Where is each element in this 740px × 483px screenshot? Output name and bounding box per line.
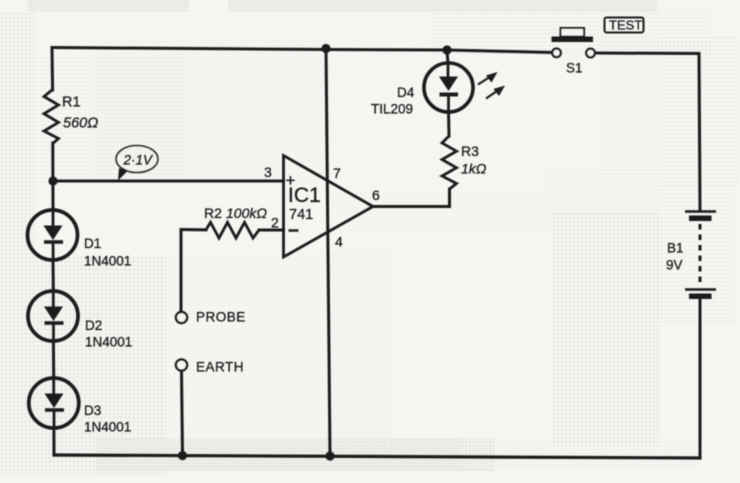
svg-text:560Ω: 560Ω bbox=[63, 116, 98, 132]
svg-text:IC1: IC1 bbox=[288, 184, 321, 207]
svg-text:B1: B1 bbox=[667, 241, 684, 256]
terminal PROBE bbox=[176, 312, 187, 323]
wire R2 left segment bbox=[181, 228, 206, 231]
LED D4 bbox=[424, 63, 505, 112]
diode D1 bbox=[28, 210, 78, 260]
wire left D1-D2 bbox=[52, 260, 55, 291]
svg-text:1N4001: 1N4001 bbox=[84, 254, 131, 269]
node junction bottom earth bbox=[178, 451, 187, 460]
wire LED top bbox=[447, 50, 448, 63]
svg-text:1N4001: 1N4001 bbox=[85, 335, 132, 350]
resistor R3 bbox=[442, 136, 457, 189]
diode D2 bbox=[28, 291, 78, 341]
svg-text:1N4001: 1N4001 bbox=[84, 420, 131, 435]
resistor R1 bbox=[44, 90, 59, 144]
svg-text:4: 4 bbox=[335, 234, 343, 250]
wire right vertical top bbox=[699, 54, 700, 211]
node junction bottom pin4 bbox=[325, 451, 334, 460]
wire probe vertical bbox=[180, 230, 183, 312]
wire middle vertical pins 7/4 bbox=[326, 48, 330, 456]
svg-text:R3: R3 bbox=[461, 143, 479, 159]
svg-text:EARTH: EARTH bbox=[196, 360, 244, 375]
svg-text:9V: 9V bbox=[666, 258, 683, 273]
wire earth vertical bbox=[182, 371, 183, 456]
svg-text:741: 741 bbox=[289, 207, 313, 223]
wire left vertical top bbox=[51, 48, 55, 91]
wire LED to R3 bbox=[447, 112, 451, 136]
wire left D3 to bottom rail bbox=[52, 428, 55, 455]
TEST label box bbox=[605, 18, 644, 33]
terminal EARTH bbox=[176, 359, 187, 370]
svg-text:D4: D4 bbox=[397, 85, 415, 100]
node junction top middle bbox=[321, 44, 330, 53]
svg-text:3: 3 bbox=[264, 164, 272, 180]
wire R2 right to pin 2 bbox=[259, 229, 284, 232]
node junction left 2.1V bbox=[48, 176, 57, 185]
svg-text:R2: R2 bbox=[204, 205, 222, 221]
resistor R2 bbox=[206, 222, 259, 238]
diode D3 bbox=[29, 378, 79, 428]
svg-text:2·1V: 2·1V bbox=[123, 153, 155, 168]
svg-text:S1: S1 bbox=[566, 61, 583, 76]
wire pin 3 input bbox=[53, 180, 284, 183]
svg-text:TIL209: TIL209 bbox=[371, 102, 413, 117]
op-amp U1 (IC1 741) bbox=[284, 156, 374, 258]
wire R3 to output corner bbox=[373, 189, 450, 207]
node voltage callout 2.1V bbox=[116, 146, 158, 181]
node junction top LED bbox=[442, 45, 451, 54]
svg-text:D2: D2 bbox=[85, 318, 102, 333]
svg-text:D1: D1 bbox=[84, 236, 101, 251]
svg-text:2: 2 bbox=[271, 215, 279, 231]
wire left vertical R1 to D1 bbox=[51, 143, 54, 210]
svg-text:100kΩ: 100kΩ bbox=[226, 205, 267, 221]
switch S1 bbox=[552, 28, 595, 57]
wire right vertical bottom bbox=[699, 299, 702, 458]
wire top rail right of switch bbox=[595, 52, 699, 56]
wire bottom rail bbox=[54, 455, 700, 458]
svg-text:1kΩ: 1kΩ bbox=[461, 161, 487, 177]
svg-text:D3: D3 bbox=[84, 403, 101, 418]
svg-text:6: 6 bbox=[372, 187, 380, 203]
wire top rail bbox=[52, 48, 552, 53]
svg-text:PROBE: PROBE bbox=[196, 310, 246, 325]
battery B1 bbox=[685, 212, 716, 300]
svg-text:7: 7 bbox=[333, 165, 341, 181]
svg-text:TEST: TEST bbox=[609, 18, 642, 33]
svg-text:R1: R1 bbox=[62, 95, 81, 111]
wire left D2-D3 bbox=[52, 341, 55, 378]
